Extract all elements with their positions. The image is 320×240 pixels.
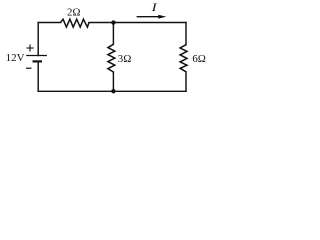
battery minus sign	[26, 67, 32, 69]
svg-text:12V: 12V	[6, 52, 25, 64]
battery V1 bottom plate (negative, short thick)	[33, 60, 43, 62]
wire bottom	[38, 90, 186, 92]
svg-text:6Ω: 6Ω	[192, 53, 206, 65]
svg-text:2Ω: 2Ω	[67, 7, 81, 19]
battery V1 top plate (positive, long)	[26, 55, 47, 57]
wire middle lower	[112, 72, 114, 91]
wire left lower (battery to corner)	[37, 61, 39, 91]
wire right lower	[185, 72, 187, 92]
battery plus sign	[27, 44, 34, 51]
svg-text:I: I	[150, 0, 158, 14]
resistor R1 2ohm	[61, 19, 90, 27]
wire top-left segment	[38, 22, 60, 24]
wire top-right segment	[89, 22, 186, 24]
svg-text:3Ω: 3Ω	[118, 53, 132, 65]
resistor R3 6ohm	[180, 45, 187, 72]
wire right upper	[185, 23, 187, 45]
wire left upper (corner to battery)	[37, 23, 39, 56]
node A junction dot top	[111, 20, 115, 24]
resistor R2 3ohm	[108, 44, 115, 72]
current arrow I	[137, 15, 167, 19]
wire middle upper	[112, 23, 114, 45]
node B junction dot bottom	[111, 89, 115, 93]
